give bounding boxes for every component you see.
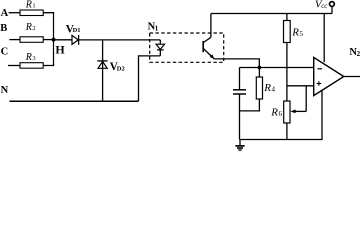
capacitor C1	[233, 68, 246, 140]
svg-text:5: 5	[300, 30, 304, 38]
wire C input	[8, 65, 20, 67]
svg-text:B: B	[0, 23, 7, 34]
wire A input	[9, 12, 20, 14]
wire inverting input	[240, 67, 314, 69]
input N label	[1, 85, 9, 96]
wire ground rail	[240, 139, 323, 141]
wire R5 to R6	[286, 43, 288, 102]
svg-text:6: 6	[279, 110, 283, 118]
wire op-amp V+ supply	[323, 14, 325, 63]
input A label	[1, 8, 9, 19]
wire op-amp V- supply	[321, 90, 323, 139]
svg-text:R: R	[25, 0, 32, 10]
wire R3 to bus	[43, 64, 53, 66]
svg-text:H: H	[55, 42, 65, 56]
wire VD1 to optocoupler	[79, 39, 161, 41]
wire non-inverting input	[287, 85, 314, 87]
svg-text:R: R	[25, 22, 32, 33]
svg-text:R: R	[263, 82, 271, 94]
svg-text:2: 2	[357, 50, 360, 58]
terminal Vcc	[315, 0, 334, 13]
svg-text:2: 2	[32, 25, 35, 32]
svg-text:N: N	[1, 85, 9, 96]
resistor R4	[240, 68, 276, 111]
input C label	[1, 47, 9, 58]
node H	[52, 38, 66, 57]
resistor R3	[20, 52, 43, 68]
svg-text:D2: D2	[117, 65, 125, 72]
ground	[235, 140, 244, 151]
wire N line	[10, 100, 139, 102]
input B label	[0, 23, 7, 34]
resistor R6 potentiometer	[270, 86, 306, 140]
svg-text:R: R	[270, 107, 278, 119]
wire H to VD1	[54, 39, 73, 41]
svg-text:4: 4	[272, 85, 276, 93]
resistor R2	[20, 22, 43, 42]
svg-text:R: R	[291, 27, 299, 39]
wire Vcc top rail	[211, 13, 332, 15]
wire VD2 branch	[102, 40, 104, 101]
wire LED return to N	[139, 56, 161, 101]
svg-text:1: 1	[32, 3, 35, 10]
wire summing bus	[53, 13, 55, 66]
svg-text:cc: cc	[321, 2, 328, 10]
op-amp N2	[314, 47, 360, 95]
svg-text:R: R	[25, 52, 32, 63]
wire R2 to node H	[43, 39, 53, 41]
svg-text:C: C	[1, 47, 9, 58]
wire op-amp output	[344, 76, 360, 78]
optocoupler U N1 label	[148, 22, 159, 33]
optocoupler phototransistor	[203, 37, 214, 59]
diode VD2	[97, 61, 124, 73]
svg-text:A: A	[1, 8, 9, 19]
optocoupler LED	[156, 40, 164, 56]
node emitter junction	[258, 66, 262, 70]
svg-text:D1: D1	[73, 27, 81, 34]
wire collector to Vcc rail	[210, 14, 212, 38]
resistor R5	[284, 14, 304, 43]
svg-text:3: 3	[32, 55, 35, 62]
wire B input	[9, 39, 20, 41]
wire R1 to bus	[43, 13, 53, 14]
diode VD1	[66, 24, 81, 45]
wire emitter	[214, 59, 259, 68]
resistor R1	[20, 0, 43, 16]
svg-text:1: 1	[155, 24, 159, 32]
optocoupler N1 dashed box	[150, 33, 224, 62]
